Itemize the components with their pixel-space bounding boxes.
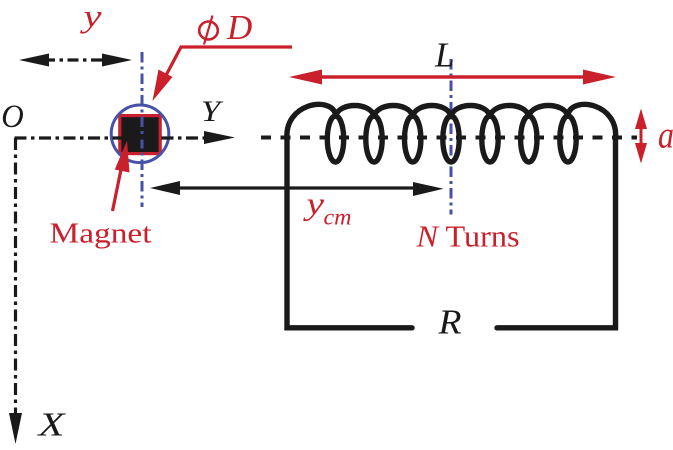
svg-text:L: L — [434, 36, 454, 75]
svg-text:y: y — [303, 185, 325, 221]
svg-text:R: R — [437, 303, 461, 342]
svg-text:X: X — [36, 407, 66, 444]
svg-text:D: D — [226, 8, 252, 47]
svg-text:cm: cm — [324, 205, 352, 231]
svg-text:O: O — [1, 99, 24, 135]
svg-text:a: a — [658, 115, 673, 157]
svg-text:Magnet: Magnet — [50, 219, 152, 250]
svg-text:y: y — [80, 0, 103, 34]
svg-text:N Turns: N Turns — [415, 220, 519, 254]
